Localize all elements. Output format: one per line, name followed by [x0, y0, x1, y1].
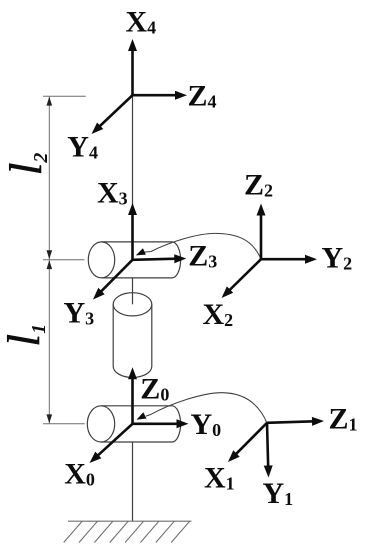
axis Z2 (up from frame 2 origin) [257, 204, 266, 260]
dimension extension tick middle (at frame 3) [43, 259, 85, 261]
wire: upper column link (frame4 down to joint-3 cylinder) [132, 95, 134, 243]
wire: mid column link (joint-3 cylinder down to vertical link top) [132, 260, 134, 305]
joint cylinder at frame 3 (horizontal) [88, 242, 180, 278]
wire: lower column link (frame0 down to ground) [132, 424, 134, 521]
joint cylinder at frame 0 (horizontal) [87, 406, 180, 442]
axis X4 (up from frame 4 origin) [128, 39, 137, 95]
axis Z3 (right from frame 3 origin) [133, 254, 187, 263]
axis Z4 (right from frame 4 origin) [133, 91, 188, 100]
axis Z0 (up from frame 0 origin) [128, 367, 137, 424]
axis Y3 (down-left from frame 3 origin) [93, 260, 133, 300]
axis Y0 (right from frame 0 origin) [133, 419, 189, 428]
dimension extension tick bottom (at frame 0) [43, 423, 85, 425]
axis Y4 (down-left from frame 4 origin) [92, 95, 133, 134]
axis Z1 (right from frame 1 origin) [267, 417, 324, 426]
axis X1 (down-left from frame 1 origin) [228, 423, 267, 462]
ground line [68, 520, 192, 522]
curved arrow from frame1 origin to frame0 origin [137, 393, 268, 423]
axis X2 (down-left from frame 2 origin) [222, 259, 262, 298]
axis Y1 (down from frame 1 origin) [264, 423, 273, 478]
vertical link cylinder [113, 293, 152, 378]
dimension line l1 (vertical with end arrows) [47, 260, 53, 423]
dimension line l2 (vertical with end arrows) [47, 97, 53, 260]
ground hatching [64, 521, 190, 542]
dimension extension tick top (at frame 4) [43, 95, 86, 97]
curved arrow from frame2 origin to frame3 origin [136, 233, 261, 259]
axis X0 (down-left from frame 0 origin) [90, 424, 133, 463]
axis Y2 (right from frame 2 origin) [261, 255, 317, 264]
axis X3 (up from frame 3 origin) [128, 203, 137, 260]
